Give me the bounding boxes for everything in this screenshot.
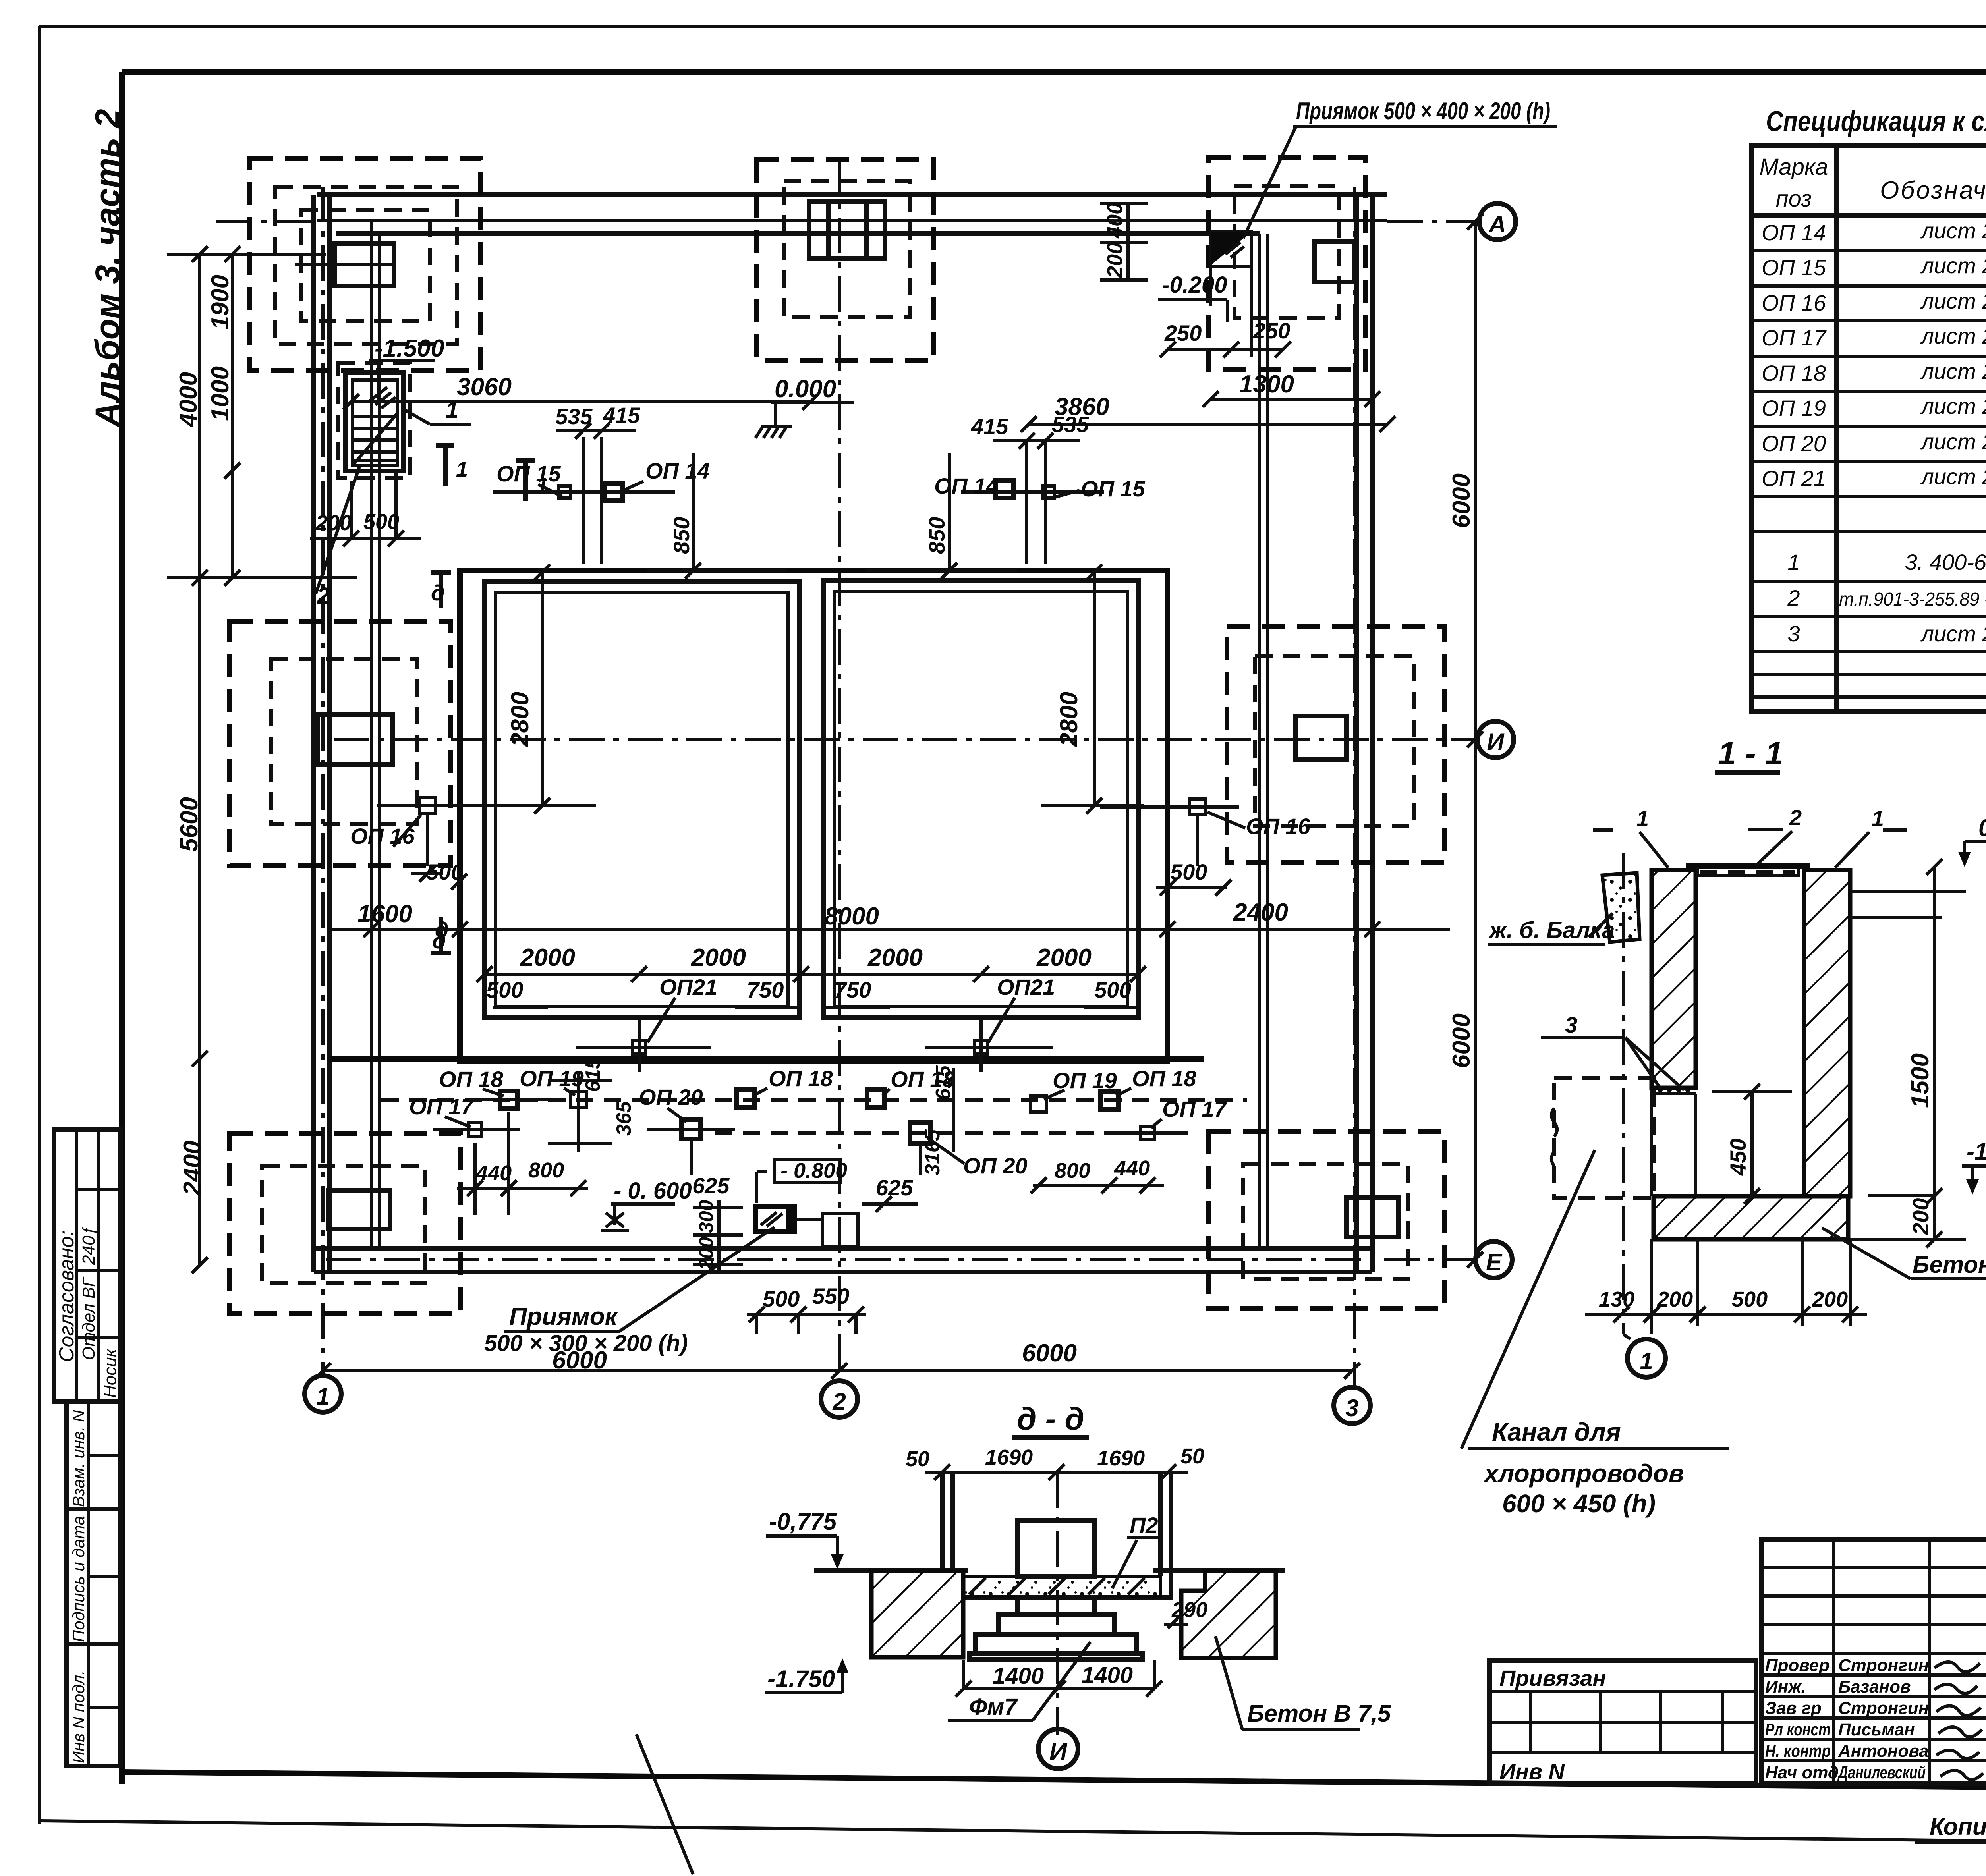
svg-text:1400: 1400: [993, 1663, 1044, 1689]
svg-text:200: 200: [1908, 1198, 1933, 1235]
svg-text:лист 27: лист 27: [1920, 464, 1986, 489]
svg-text:лист 27: лист 27: [1920, 429, 1986, 454]
svg-text:365: 365: [612, 1101, 636, 1136]
svg-text:1690: 1690: [1097, 1446, 1145, 1470]
dashed group G1 top-left: [250, 158, 481, 371]
svg-text:1000: 1000: [207, 366, 234, 421]
svg-text:750: 750: [834, 977, 871, 1002]
svg-text:200: 200: [1657, 1287, 1693, 1311]
OP16 left square with label: [350, 798, 528, 905]
svg-text:50: 50: [906, 1447, 929, 1471]
left margin table: Согласовано: [54, 1130, 121, 1402]
svg-text:800: 800: [1055, 1159, 1090, 1183]
OP19 square bottom 1: [520, 1066, 586, 1108]
svg-text:Привязан: Привязан: [1499, 1666, 1606, 1691]
svg-text:240ƒ: 240ƒ: [79, 1226, 99, 1265]
svg-text:500: 500: [1094, 977, 1131, 1002]
left vertical dimension line chain (1900/1000): [167, 246, 357, 586]
svg-text:1900: 1900: [207, 275, 234, 330]
dim row 2000x4 under basin: [477, 944, 1146, 982]
left vertical dimension line chain (4000/5600/2400): [175, 246, 208, 1273]
svg-text:- 0. 600: - 0. 600: [614, 1178, 692, 1204]
svg-text:2800: 2800: [506, 692, 534, 747]
svg-text:Спецификация к схеме распол: Спецификация к схеме расположения на лис…: [1766, 106, 1986, 137]
svg-text:Согласовано:: Согласовано:: [55, 1230, 78, 1362]
svg-text:Инж.: Инж.: [1765, 1677, 1806, 1697]
svg-text:3165: 3165: [921, 1129, 944, 1175]
svg-text:Зав гр: Зав гр: [1765, 1698, 1822, 1718]
section 1-1 left wall (hatched): [1652, 870, 1696, 1088]
svg-text:500: 500: [486, 977, 523, 1002]
svg-text:3: 3: [1565, 1012, 1577, 1037]
svg-text:2: 2: [317, 583, 330, 609]
svg-text:1690: 1690: [985, 1446, 1033, 1469]
svg-text:200: 200: [1812, 1287, 1848, 1311]
svg-text:535: 535: [1052, 412, 1089, 437]
svg-text:0.000: 0.000: [775, 375, 836, 403]
svg-text:лист 27: лист 27: [1920, 253, 1986, 278]
svg-text:лист 27: лист 27: [1920, 394, 1986, 419]
d-d dim 1400/1400: [956, 1660, 1162, 1697]
right vertical dimension line 6000+6000: [1448, 214, 1483, 1268]
svg-text:Бетон В 7,5: Бетон В 7,5: [1247, 1700, 1391, 1727]
OP17 square bottom far-left: [409, 1094, 520, 1136]
svg-text:Приямок 500 × 400 × 200 (h): Приямок 500 × 400 × 200 (h): [1296, 98, 1550, 124]
d-d top dim line 50/1690/1690/50: [906, 1444, 1204, 1480]
OP20 square bottom 2: [910, 1123, 1028, 1178]
section 1-1 top embed plate: [1686, 866, 1810, 876]
d-d right ground block (hatched): [1181, 1571, 1276, 1658]
leader 2 to stairs pit: [316, 467, 359, 609]
svg-text:ОП 19: ОП 19: [520, 1066, 584, 1091]
svg-text:200: 200: [315, 511, 352, 535]
svg-text:2: 2: [1787, 585, 1800, 610]
svg-text:ОП 16: ОП 16: [1762, 290, 1826, 315]
svg-text:лист 27: лист 27: [1920, 323, 1986, 348]
svg-text:-1.500: -1.500: [1967, 1138, 1986, 1165]
d-d concrete layer inside tub: [952, 1576, 1161, 1597]
svg-text:ОП 15: ОП 15: [1762, 255, 1826, 280]
svg-text:т.п.901-3-255.89 - КЖИ.63.0.0: т.п.901-3-255.89 - КЖИ.63.0.0: [1839, 589, 1986, 610]
svg-text:ОП 21: ОП 21: [1762, 466, 1826, 491]
left margin table: Взам/Подпись/Инв: [66, 1402, 121, 1766]
axis I circle: [1477, 721, 1514, 758]
svg-text:550: 550: [812, 1283, 849, 1309]
svg-text:415: 415: [603, 403, 640, 428]
svg-text:ОП21: ОП21: [997, 975, 1055, 1000]
svg-text:ОП 17: ОП 17: [409, 1094, 475, 1119]
svg-text:6000: 6000: [1448, 1013, 1475, 1068]
OP19 square bottom 2: [1031, 1068, 1117, 1112]
left wall lower outline: [1652, 1088, 1696, 1196]
section 1-1 floor slab (hatched): [1654, 1196, 1848, 1239]
label 3 with leader: [1541, 1012, 1684, 1090]
svg-text:Обозначение: Обозначение: [1880, 177, 1986, 204]
rotated dims 615/365 left: [548, 1057, 636, 1152]
svg-text:6000: 6000: [1022, 1339, 1077, 1367]
svg-text:2000: 2000: [867, 944, 923, 971]
svg-text:Стронгин: Стронгин: [1838, 1698, 1929, 1718]
zh.b.balka concrete beam: [1488, 873, 1640, 944]
svg-text:1 - 1: 1 - 1: [1718, 735, 1783, 772]
level 0.000 section: [1958, 814, 1986, 867]
svg-text:Инв N подл.: Инв N подл.: [69, 1670, 88, 1763]
dim 450 section: [1712, 1084, 1792, 1204]
dim row 800/440 right: [1031, 1156, 1164, 1193]
svg-text:800: 800: [528, 1158, 564, 1182]
svg-text:2000: 2000: [520, 944, 575, 971]
svg-text:-0.200: -0.200: [1162, 272, 1227, 298]
label -0.800 boxed: [757, 1159, 847, 1203]
vertical dim 850 left: [647, 453, 786, 579]
svg-text:ОП 15: ОП 15: [496, 461, 561, 486]
svg-text:50: 50: [1180, 1444, 1204, 1468]
section cut mark 1 (right): [516, 461, 548, 501]
dashed group G6 bottom-left: [230, 1134, 461, 1313]
svg-text:д: д: [435, 917, 449, 942]
OP16 right square with label: [1100, 799, 1311, 896]
label Priyamok 500x400x200 top: [1243, 98, 1557, 238]
axis A circle: [1479, 203, 1516, 240]
dashed group G5 mid-right: [1227, 627, 1445, 863]
basin right square: [823, 581, 1139, 1018]
svg-text:хлоропроводов: хлоропроводов: [1483, 1459, 1684, 1488]
level mark 0.000 with ground symbol: [755, 375, 854, 438]
stairs pit (top-left priyamok): [338, 363, 410, 478]
svg-text:Нач отд: Нач отд: [1765, 1763, 1839, 1782]
svg-text:А: А: [1488, 211, 1506, 237]
title block: staff grid: [1761, 1539, 1986, 1784]
svg-text:ОП 16: ОП 16: [350, 824, 415, 849]
svg-text:500: 500: [763, 1286, 800, 1311]
svg-text:д: д: [431, 580, 445, 605]
svg-text:Базанов: Базанов: [1838, 1677, 1911, 1697]
dashed group G3 top-right: [1208, 157, 1366, 370]
svg-text:ОП 15: ОП 15: [1081, 476, 1146, 501]
svg-text:Канал для: Канал для: [1492, 1418, 1621, 1446]
svg-text:2800: 2800: [1055, 692, 1083, 747]
axis 3 circle: [1334, 1387, 1370, 1424]
svg-text:ОП 19: ОП 19: [1053, 1068, 1117, 1093]
svg-text:1: 1: [316, 1383, 329, 1410]
dashed group G2 top-center: [756, 160, 934, 361]
OP18 square bottom 2: [737, 1066, 833, 1107]
leader 1 to stairs pit: [403, 397, 471, 424]
dimension 3860: [1021, 393, 1395, 432]
svg-text:500: 500: [426, 859, 463, 884]
svg-text:-0,775: -0,775: [769, 1508, 837, 1535]
label P2 with leader: [1112, 1513, 1160, 1588]
svg-text:-1.500: -1.500: [375, 335, 444, 362]
svg-text:1: 1: [1872, 806, 1884, 831]
dims 250/250: [1160, 318, 1291, 357]
svg-text:Данилевский: Данилевский: [1837, 1763, 1926, 1782]
dim 625 left: [692, 1173, 730, 1198]
rebar dotted strip: [1658, 1088, 1690, 1092]
building left wall: [314, 195, 379, 1272]
svg-text:1: 1: [1787, 550, 1800, 575]
section 1-1 right wall (hatched): [1804, 870, 1850, 1196]
dimension 3060: [343, 373, 818, 410]
label Priyamok 500x300x200 with leader: [484, 1227, 775, 1356]
svg-text:450: 450: [1725, 1139, 1750, 1176]
dim 500/550 below small pit: [747, 1283, 866, 1334]
svg-text:2: 2: [1789, 805, 1802, 830]
svg-text:Марка: Марка: [1759, 154, 1828, 180]
chlorine channel dashed (section): [1551, 1078, 1654, 1198]
svg-text:ОП 20: ОП 20: [963, 1153, 1028, 1178]
title block: [1489, 1539, 1986, 1788]
svg-text:1: 1: [1636, 806, 1649, 831]
dims 400/200 rotated near pit: [1100, 203, 1148, 280]
section cut mark 1 (left): [436, 445, 468, 486]
d-d cut mark bottom: [431, 917, 451, 953]
svg-text:625: 625: [876, 1175, 913, 1200]
dim 200 section: [1850, 1196, 1966, 1247]
bottom axis dimension line 6000+6000: [315, 1339, 1360, 1379]
svg-text:Приямок: Приямок: [509, 1303, 618, 1330]
svg-text:1: 1: [456, 457, 468, 481]
dim line 1600/8000/2400: [330, 899, 1450, 942]
svg-text:поз: поз: [1776, 186, 1812, 212]
svg-text:2000: 2000: [691, 944, 746, 971]
axis E circle: [1476, 1241, 1512, 1278]
axis 1 line: [321, 187, 325, 1375]
svg-text:600 × 450 (h): 600 × 450 (h): [1502, 1489, 1656, 1518]
d-d foundation steps: [970, 1598, 1143, 1659]
svg-text:250: 250: [1164, 320, 1202, 345]
svg-text:130: 130: [1599, 1287, 1634, 1311]
dim row 440/800 left: [457, 1112, 588, 1215]
svg-text:ОП 20: ОП 20: [1762, 431, 1826, 456]
title block: privyazan box: [1489, 1661, 1756, 1784]
svg-text:3: 3: [1787, 621, 1800, 646]
small pit with black fill (bottom center): [753, 1204, 858, 1246]
svg-text:3060: 3060: [457, 373, 512, 401]
stray diagonal line bottom-left of d-d: [636, 1734, 693, 1874]
dim 625 right: [862, 1175, 918, 1212]
svg-text:- 0.800: - 0.800: [780, 1159, 847, 1183]
svg-text:3. 400-6176: 3. 400-6176: [1905, 550, 1986, 575]
svg-text:ОП 14: ОП 14: [934, 473, 999, 498]
svg-text:Инв N: Инв N: [1499, 1759, 1565, 1784]
svg-text:Письман: Письман: [1838, 1720, 1915, 1739]
axis 3 line: [1353, 187, 1356, 1386]
svg-text:Н. контр: Н. контр: [1765, 1741, 1831, 1761]
d-d ground surface lines: [814, 1568, 1285, 1573]
svg-text:440: 440: [475, 1161, 512, 1185]
svg-text:лист 27: лист 27: [1920, 359, 1986, 384]
d-d tub walls: [942, 1474, 1171, 1600]
level -1.750: [765, 1658, 849, 1693]
labels 1 2 1 above section: [1593, 805, 1907, 868]
svg-text:500: 500: [363, 510, 399, 534]
svg-text:2400: 2400: [179, 1141, 206, 1196]
svg-text:300: 300: [695, 1200, 717, 1233]
section d-d title: [1012, 1401, 1089, 1438]
svg-text:Подпись и дата: Подпись и дата: [69, 1516, 88, 1642]
building top wall: [317, 195, 1387, 234]
OP15/OP14 squares top-left pair: [493, 403, 710, 564]
svg-text:ОП 14: ОП 14: [1762, 220, 1826, 245]
svg-text:лист 27: лист 27: [1920, 288, 1986, 313]
axis 1 circle: [305, 1376, 341, 1412]
svg-text:615: 615: [582, 1057, 605, 1092]
svg-text:850: 850: [924, 517, 949, 554]
dim row 500/750/750/500 with OP21: [486, 975, 1136, 1007]
vertical dim 2800 left (inside basin): [493, 564, 596, 814]
svg-text:-1.750: -1.750: [767, 1666, 835, 1692]
label -0.600 with mark: [601, 1178, 692, 1230]
svg-text:Носик: Носик: [100, 1348, 120, 1398]
d-d pedestal block: [1017, 1520, 1095, 1576]
svg-text:400: 400: [1103, 203, 1127, 239]
level -1.500 section: [1868, 1138, 1986, 1195]
svg-text:П2: П2: [1130, 1513, 1158, 1538]
OP14/OP15 squares top-right pair: [934, 412, 1146, 564]
svg-text:1500: 1500: [1907, 1053, 1934, 1108]
svg-text:д - д: д - д: [1017, 1401, 1084, 1436]
svg-text:1300: 1300: [1239, 371, 1294, 398]
svg-text:Рл конст: Рл конст: [1765, 1720, 1831, 1739]
signatures squiggles: [1934, 1662, 1983, 1779]
svg-text:3: 3: [1345, 1395, 1358, 1421]
rotated dims 615/365 right: [921, 1065, 955, 1175]
svg-text:Отдел ВГ: Отдел ВГ: [79, 1276, 99, 1360]
axis 2 line: [838, 159, 841, 1380]
svg-text:615: 615: [932, 1065, 955, 1100]
axis E line: [326, 1258, 1475, 1261]
dim 200/500 below stairs pit: [310, 473, 421, 546]
svg-text:ОП 18: ОП 18: [439, 1067, 504, 1092]
dashed group G7 bottom-right: [1208, 1132, 1445, 1309]
label Kanal dlya chloroprovodov: [1461, 1150, 1729, 1518]
rotated dims 300/200 near small pit: [693, 1200, 743, 1272]
svg-text:ОП 17: ОП 17: [1762, 325, 1827, 350]
d-d axis line and I circle: [1038, 1472, 1078, 1769]
svg-text:ОП 18: ОП 18: [1762, 361, 1826, 386]
section 1-1 title: [1715, 735, 1783, 772]
svg-text:ОП 20: ОП 20: [639, 1085, 703, 1110]
building right wall: [1260, 195, 1372, 1272]
svg-text:лист 27: лист 27: [1920, 621, 1986, 646]
svg-text:200: 200: [1103, 242, 1127, 278]
svg-text:535: 535: [555, 404, 593, 429]
label Fm7: [948, 1642, 1090, 1720]
dim 1500 section: [1850, 859, 1966, 1204]
section 1-1 bottom dims 130/200/500/200: [1585, 1239, 1867, 1334]
svg-text:1600: 1600: [357, 900, 412, 928]
svg-text:1400: 1400: [1082, 1662, 1133, 1688]
svg-text:200: 200: [695, 1237, 717, 1270]
OP17 square bottom right: [1108, 1096, 1228, 1140]
axis A line: [216, 221, 1479, 222]
svg-text:лист 27: лист 27: [1920, 218, 1986, 243]
OP18 square bottom 1: [439, 1067, 556, 1108]
svg-text:И: И: [1487, 729, 1505, 755]
svg-text:500: 500: [1732, 1287, 1768, 1311]
basin outer thick rectangle: [460, 571, 1167, 1062]
svg-text:5600: 5600: [176, 797, 203, 852]
svg-text:6000: 6000: [1448, 473, 1475, 528]
svg-text:1: 1: [446, 397, 458, 423]
svg-text:Альбом 3, часть 2: Альбом 3, часть 2: [89, 109, 127, 428]
label Beton V12.5: [1822, 1228, 1986, 1279]
svg-text:4000: 4000: [175, 372, 202, 428]
svg-text:Провер: Провер: [1765, 1656, 1830, 1675]
svg-text:Копировал Родлевская: Копировал Родлевская: [1930, 1813, 1986, 1840]
d-d cut mark top: [431, 573, 451, 608]
svg-text:415: 415: [971, 414, 1008, 439]
level -0,775: [766, 1508, 844, 1569]
svg-text:440: 440: [1114, 1156, 1150, 1180]
specification table: [1751, 145, 1986, 712]
svg-text:ОП 19: ОП 19: [1762, 396, 1826, 421]
svg-text:2400: 2400: [1233, 899, 1288, 926]
svg-text:2: 2: [832, 1388, 846, 1415]
dimension 1300: [1203, 371, 1380, 407]
vertical dim 850 right: [866, 453, 1017, 579]
dim 290: [1164, 1598, 1207, 1628]
label -0.200: [1158, 272, 1227, 322]
svg-text:2000: 2000: [1036, 944, 1092, 971]
svg-text:500 × 300 × 200 (h): 500 × 300 × 200 (h): [484, 1330, 688, 1356]
svg-text:Е: Е: [1486, 1249, 1503, 1276]
spec table rows text: [1762, 218, 1986, 646]
svg-text:ОП 18: ОП 18: [769, 1066, 833, 1091]
svg-text:1: 1: [1640, 1348, 1653, 1374]
svg-text:250: 250: [1253, 318, 1290, 343]
label Beton V7,5: [1215, 1636, 1391, 1730]
svg-text:ОП 14: ОП 14: [645, 458, 710, 483]
OP20 square bottom 1: [639, 1085, 735, 1175]
OP18 square bottom 3: [867, 1067, 955, 1107]
svg-text:Стронгин: Стронгин: [1838, 1656, 1929, 1675]
svg-text:ОП21: ОП21: [659, 975, 717, 1000]
label -1.500 with leader: [369, 335, 444, 402]
lower zone dashed strip lines: [381, 1100, 1247, 1133]
svg-text:ОП 17: ОП 17: [1162, 1096, 1228, 1121]
basin left square: [485, 582, 799, 1018]
black triangle pit (top-right priyamok 500x400): [1211, 232, 1252, 357]
basin bottom wall extension line: [330, 1056, 1204, 1062]
svg-text:Взам. инв. N: Взам. инв. N: [69, 1410, 88, 1507]
building bottom wall: [314, 1249, 1372, 1272]
svg-text:8000: 8000: [824, 903, 879, 930]
svg-text:Бетон В 12.5: Бетон В 12.5: [1913, 1251, 1986, 1278]
OP21 squares with leaders: [576, 998, 1053, 1072]
svg-text:Антонова: Антонова: [1838, 1741, 1929, 1761]
svg-text:625: 625: [692, 1173, 730, 1198]
section 1-1 axis line and circle 1: [1623, 853, 1665, 1377]
svg-text:750: 750: [747, 977, 784, 1002]
axis 2 circle: [821, 1381, 858, 1417]
OP18 square bottom 4: [1101, 1066, 1197, 1109]
svg-text:ОП 18: ОП 18: [1132, 1066, 1197, 1091]
axis I line: [334, 738, 1476, 741]
vertical dim 2800 right (inside basin): [1041, 564, 1144, 814]
svg-text:И: И: [1049, 1738, 1068, 1766]
d-d left ground block (hatched): [871, 1571, 963, 1657]
svg-text:ОП 16: ОП 16: [1246, 814, 1311, 839]
svg-text:850: 850: [669, 517, 694, 554]
svg-text:0.000: 0.000: [1978, 814, 1986, 841]
dashed group G4 mid-left: [230, 621, 450, 865]
svg-text:Фм7: Фм7: [969, 1694, 1018, 1720]
